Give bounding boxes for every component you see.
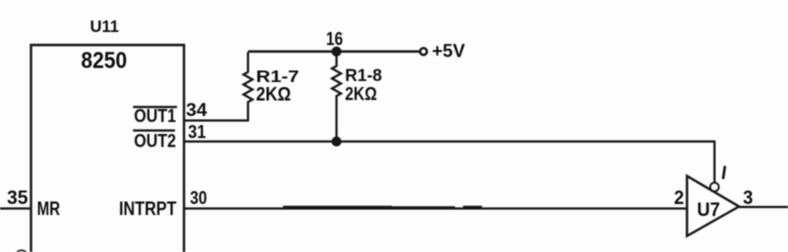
svg-text:3: 3 [743,188,753,209]
wire pin34 to R1-7 [184,119,249,121]
svg-text:35: 35 [7,188,28,209]
svg-text:31: 31 [188,122,206,142]
IC U11 body [31,45,184,252]
pin label OUT2 (active low) [133,131,176,152]
svg-text:34: 34 [186,100,207,120]
svg-text:2KΩ: 2KΩ [256,85,291,106]
pin number 3 [743,188,753,209]
junction dot at pin16 / R1-8 top [332,47,342,57]
wire +5V rail [248,50,420,52]
svg-text:OUT2: OUT2 [134,131,176,151]
pin number 1 [723,166,725,179]
wire U7 output [739,206,788,208]
pin label MR [37,199,60,220]
pin number 2 [674,188,684,209]
svg-text:2KΩ: 2KΩ [345,84,377,104]
+5V terminal circle [420,48,427,55]
svg-text:2: 2 [674,188,684,209]
svg-text:8250: 8250 [81,47,127,73]
resistor R1-8 [332,52,341,142]
svg-text:R1-8: R1-8 [345,65,382,85]
label R1-8 [345,65,382,85]
stray ink mark bottom-left [17,250,26,252]
pin label OUT1 (active low) [133,106,177,126]
value 2KΩ R1-8 [345,84,377,104]
value 8250 [81,47,127,73]
pin number 31 [188,122,206,142]
wire INTRPT to U7 input [184,207,687,208]
svg-text:INTRPT: INTRPT [119,198,177,220]
value 2KΩ R1-7 [256,85,291,106]
pin label INTRPT [119,198,177,220]
pin number 16 [326,29,343,49]
svg-text:+5V: +5V [432,41,465,61]
svg-text:16: 16 [326,29,343,49]
svg-text:U7: U7 [697,200,720,221]
wire OUT2 net to U7 pin1 [184,142,715,184]
buffer U7 [687,176,739,236]
svg-text:30: 30 [190,188,207,208]
label U7 [697,200,720,221]
pin 1 bubble on U7 [710,183,718,191]
pin number 34 [186,100,207,120]
label R1-7 [256,68,299,86]
wire MR input [0,207,31,209]
junction dot R1-8 bottom on OUT2 net [332,137,342,147]
pin number 35 [7,188,28,209]
svg-text:MR: MR [37,199,60,220]
svg-text:OUT1: OUT1 [134,106,176,126]
label +5V [432,41,465,61]
label U11 [90,18,119,36]
svg-text:R1-7: R1-7 [256,68,299,86]
pin number 30 [190,188,207,208]
svg-text:U11: U11 [90,18,119,36]
resistor R1-7 [244,52,253,121]
